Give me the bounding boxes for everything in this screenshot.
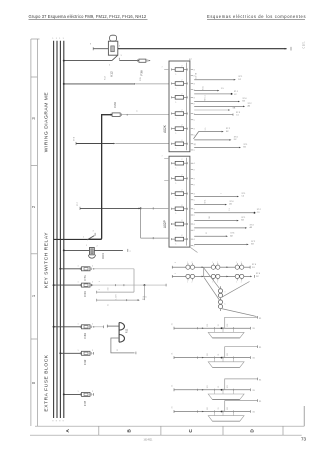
svg-text:2: 2 <box>192 262 193 264</box>
svg-text:4: 4 <box>137 110 139 112</box>
svg-text:1: 1 <box>175 183 176 185</box>
svg-text:1: 1 <box>175 213 176 215</box>
svg-text:2: 2 <box>181 110 182 112</box>
svg-text:1: 1 <box>52 38 53 40</box>
svg-text:1: 1 <box>175 102 176 104</box>
svg-text:31: 31 <box>172 385 174 387</box>
svg-text:2: 2 <box>241 282 242 284</box>
svg-text:2: 2 <box>194 230 195 232</box>
svg-text:K04: K04 <box>101 253 105 259</box>
svg-text:302: 302 <box>227 407 229 410</box>
svg-text:C3: C3 <box>257 212 261 214</box>
svg-text:2: 2 <box>181 125 182 127</box>
svg-text:2: 2 <box>181 66 182 68</box>
svg-text:4: 4 <box>194 224 195 226</box>
svg-text:31: 31 <box>206 232 208 234</box>
svg-text:31: 31 <box>259 347 262 349</box>
svg-text:2: 2 <box>194 120 195 122</box>
svg-text:301: 301 <box>207 407 209 410</box>
svg-text:B2: B2 <box>243 147 246 149</box>
svg-text:F71: F71 <box>83 275 87 281</box>
svg-text:302: 302 <box>227 353 229 356</box>
svg-text:KEY SWITCH RELAY: KEY SWITCH RELAY <box>44 232 50 288</box>
svg-text:301: 301 <box>207 324 209 327</box>
svg-text:31: 31 <box>195 143 197 145</box>
svg-text:A02P: A02P <box>163 220 167 228</box>
svg-text:31: 31 <box>218 324 220 326</box>
svg-text:1: 1 <box>175 118 176 120</box>
svg-text:31: 31 <box>172 323 174 325</box>
svg-text:3: 3 <box>31 117 36 120</box>
svg-text:W31: W31 <box>203 86 205 90</box>
svg-text:1: 1 <box>175 168 176 170</box>
svg-text:31: 31 <box>218 408 220 410</box>
svg-text:F36: F36 <box>140 70 144 76</box>
svg-text:9: 9 <box>63 421 64 423</box>
svg-text:2: 2 <box>181 93 182 95</box>
svg-text:1: 1 <box>78 282 79 284</box>
svg-text:2: 2 <box>92 265 93 267</box>
svg-text:302: 302 <box>227 385 229 388</box>
svg-text:301: 301 <box>207 385 209 388</box>
svg-text:31: 31 <box>218 354 220 356</box>
svg-text:B1: B1 <box>143 299 146 301</box>
svg-text:1: 1 <box>175 198 176 200</box>
svg-text:F29: F29 <box>140 76 142 80</box>
svg-text:2: 2 <box>31 205 36 208</box>
svg-text:A1: A1 <box>229 203 232 206</box>
svg-text:A02K: A02K <box>163 124 167 133</box>
svg-text:4: 4 <box>194 209 195 211</box>
svg-text:2: 2 <box>194 169 195 171</box>
svg-text:73: 73 <box>301 436 307 441</box>
svg-text:B3: B3 <box>251 244 254 246</box>
svg-text:2: 2 <box>181 220 182 222</box>
svg-text:2: 2 <box>181 190 182 192</box>
svg-text:2: 2 <box>97 246 99 248</box>
svg-text:1.5: 1.5 <box>229 208 231 211</box>
svg-text:2: 2 <box>194 215 195 217</box>
svg-text:2: 2 <box>181 140 182 142</box>
svg-text:1.5: 1.5 <box>221 88 225 90</box>
svg-text:1: 1 <box>236 262 237 264</box>
svg-text:2: 2 <box>225 304 227 305</box>
svg-text:D: D <box>249 429 255 433</box>
svg-text:F39: F39 <box>83 333 87 339</box>
svg-text:310: 310 <box>108 288 110 291</box>
svg-text:F47: F47 <box>83 400 87 406</box>
svg-text:1: 1 <box>187 282 188 284</box>
svg-text:1: 1 <box>56 38 57 40</box>
svg-text:F34: F34 <box>83 291 87 297</box>
svg-text:1: 1 <box>78 265 79 267</box>
svg-text:9: 9 <box>56 421 57 423</box>
svg-text:1.5GR: 1.5GR <box>116 294 118 300</box>
svg-text:A4: A4 <box>248 105 251 108</box>
svg-text:C4: C4 <box>241 196 245 198</box>
svg-text:1: 1 <box>191 59 192 61</box>
svg-text:2: 2 <box>194 185 195 187</box>
svg-text:C2: C2 <box>234 94 238 96</box>
svg-text:2: 2 <box>130 251 132 253</box>
svg-text:A: A <box>65 429 71 433</box>
svg-text:31: 31 <box>252 390 255 392</box>
svg-text:2: 2 <box>92 391 93 393</box>
svg-text:1: 1 <box>78 391 79 393</box>
svg-text:1: 1 <box>63 38 64 40</box>
svg-text:1614921: 1614921 <box>144 440 154 442</box>
svg-text:4: 4 <box>194 194 195 196</box>
svg-text:2: 2 <box>92 323 93 325</box>
svg-text:31: 31 <box>259 318 262 320</box>
svg-text:SB: SB <box>209 216 211 219</box>
svg-text:2: 2 <box>241 262 242 264</box>
svg-text:2: 2 <box>194 104 195 106</box>
svg-text:A3: A3 <box>250 226 253 229</box>
svg-text:301: 301 <box>207 353 209 356</box>
svg-text:R11: R11 <box>124 328 128 333</box>
svg-text:2: 2 <box>181 159 182 161</box>
svg-text:2: 2 <box>217 282 218 284</box>
svg-text:C: C <box>188 429 194 433</box>
svg-text:C1: C1 <box>236 114 240 116</box>
svg-text:1: 1 <box>236 282 237 284</box>
svg-text:D2: D2 <box>256 276 260 278</box>
svg-text:4: 4 <box>194 97 195 99</box>
svg-text:37 C: 37 C <box>77 201 79 206</box>
svg-text:4: 4 <box>194 84 195 86</box>
svg-text:4: 4 <box>194 239 195 241</box>
svg-text:A2: A2 <box>230 234 233 237</box>
svg-text:310 SB: 310 SB <box>195 72 197 79</box>
svg-text:4: 4 <box>99 281 101 282</box>
svg-text:1: 1 <box>175 148 176 150</box>
svg-text:31: 31 <box>252 358 255 360</box>
svg-text:31: 31 <box>259 379 262 381</box>
svg-text:K12: K12 <box>110 71 114 77</box>
svg-text:31: 31 <box>252 412 255 414</box>
svg-text:1: 1 <box>175 74 176 76</box>
svg-text:B4: B4 <box>242 101 245 103</box>
svg-text:2: 2 <box>99 289 101 290</box>
svg-text:2: 2 <box>181 235 182 237</box>
svg-text:F29: F29 <box>113 102 117 108</box>
svg-text:2.5: 2.5 <box>205 128 207 131</box>
svg-text:31: 31 <box>172 407 174 409</box>
svg-text:1: 1 <box>212 262 213 264</box>
svg-text:D2: D2 <box>238 79 242 81</box>
svg-text:2: 2 <box>92 350 93 352</box>
svg-text:2: 2 <box>194 150 195 152</box>
svg-text:C 37.1: C 37.1 <box>303 41 306 49</box>
svg-text:2: 2 <box>194 135 195 137</box>
svg-text:1: 1 <box>212 282 213 284</box>
svg-text:1: 1 <box>162 156 164 157</box>
svg-text:2: 2 <box>181 174 182 176</box>
svg-text:2: 2 <box>194 200 195 202</box>
svg-text:1: 1 <box>221 193 223 194</box>
svg-text:0: 0 <box>31 381 36 384</box>
svg-text:D1: D1 <box>252 267 256 269</box>
svg-text:1: 1 <box>59 38 60 40</box>
svg-text:D2: D2 <box>234 139 238 141</box>
svg-text:1: 1 <box>187 262 188 264</box>
svg-text:1: 1 <box>83 236 85 238</box>
svg-text:WIRING DIAGRAM ME: WIRING DIAGRAM ME <box>44 92 50 153</box>
svg-text:SB: SB <box>233 108 236 110</box>
svg-text:1: 1 <box>78 323 79 325</box>
svg-text:302: 302 <box>227 324 229 327</box>
svg-text:2: 2 <box>194 245 195 247</box>
svg-text:1: 1 <box>225 292 227 293</box>
svg-text:EXTRA FUSE BLOCK: EXTRA FUSE BLOCK <box>44 354 50 411</box>
svg-text:5: 5 <box>109 65 111 67</box>
svg-text:2: 2 <box>92 282 93 284</box>
svg-text:9: 9 <box>52 421 53 423</box>
svg-text:1: 1 <box>86 245 88 247</box>
svg-text:1: 1 <box>175 133 176 135</box>
svg-text:31: 31 <box>218 386 220 388</box>
svg-text:SB 1.5: SB 1.5 <box>205 95 207 101</box>
svg-text:1: 1 <box>78 350 79 352</box>
svg-text:B: B <box>126 429 132 433</box>
svg-text:F42: F42 <box>83 359 87 365</box>
svg-text:2: 2 <box>181 80 182 82</box>
svg-text:4: 4 <box>194 70 195 72</box>
svg-text:4: 4 <box>194 163 195 165</box>
svg-text:4: 4 <box>194 129 195 131</box>
svg-text:K12: K12 <box>105 75 107 79</box>
svg-text:3: 3 <box>93 231 95 233</box>
svg-text:1: 1 <box>31 294 36 297</box>
svg-text:37 B: 37 B <box>73 136 75 141</box>
svg-text:9: 9 <box>59 421 60 423</box>
svg-text:B2: B2 <box>226 131 229 133</box>
svg-text:31: 31 <box>108 304 110 306</box>
svg-text:31: 31 <box>259 401 262 403</box>
svg-text:31: 31 <box>117 349 119 351</box>
svg-text:31: 31 <box>172 353 174 355</box>
svg-text:6: 6 <box>175 262 177 263</box>
svg-text:1: 1 <box>175 88 176 90</box>
svg-text:Esquemas eléctricos de los com: Esquemas eléctricos de los componentes <box>207 14 306 19</box>
svg-text:B4: B4 <box>241 220 244 222</box>
svg-text:31: 31 <box>252 328 255 330</box>
svg-text:1: 1 <box>175 228 176 230</box>
svg-text:1: 1 <box>175 244 176 246</box>
svg-text:5: 5 <box>175 273 177 274</box>
svg-text:Grupo 37 Esquema eléctrico FM9: Grupo 37 Esquema eléctrico FM9, FM12, FH… <box>29 14 147 19</box>
svg-text:W31: W31 <box>205 200 207 204</box>
svg-text:8: 8 <box>90 44 92 46</box>
svg-text:1: 1 <box>162 67 164 68</box>
svg-text:2: 2 <box>181 205 182 207</box>
svg-text:4: 4 <box>194 178 195 180</box>
svg-text:2: 2 <box>217 262 218 264</box>
svg-text:2: 2 <box>192 282 193 284</box>
svg-text:3: 3 <box>121 55 123 57</box>
svg-text:6: 6 <box>119 46 120 48</box>
